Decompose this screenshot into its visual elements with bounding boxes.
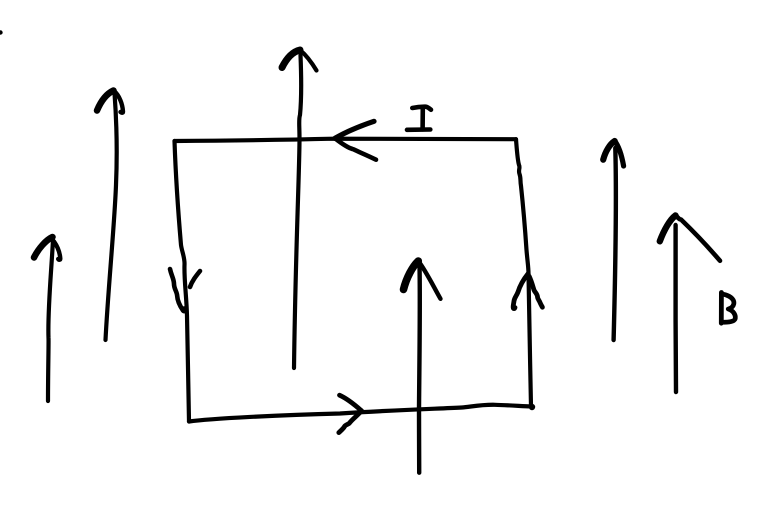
current arrowhead on top wire (pointing left): [335, 121, 376, 159]
current arrowhead on bottom wire (pointing right): [339, 395, 362, 432]
field arrow B2 (left, taller): [97, 91, 123, 341]
field arrow B1 (far left): [34, 237, 60, 401]
current loop: left wire: [175, 141, 190, 422]
field arrow B5 (right of loop): [603, 141, 623, 340]
label I (current): [407, 107, 431, 130]
stray pen dot: [0, 30, 3, 34]
field arrow B6 (far right, labelled B): [660, 216, 720, 393]
current arrowhead on right wire (pointing up): [513, 274, 542, 309]
pen blob at bottom-right corner: [529, 404, 535, 410]
field arrow B4 (center, through bottom wire of loop): [404, 261, 441, 473]
current loop: top wire: [175, 139, 517, 141]
field arrow B3 (passes through left-middle of loop): [282, 50, 317, 368]
current arrowhead on left wire (pointing down): [170, 269, 200, 311]
current loop: bottom wire: [189, 405, 531, 422]
label B (magnetic field): [721, 293, 735, 324]
current loop: right wire: [516, 139, 531, 406]
